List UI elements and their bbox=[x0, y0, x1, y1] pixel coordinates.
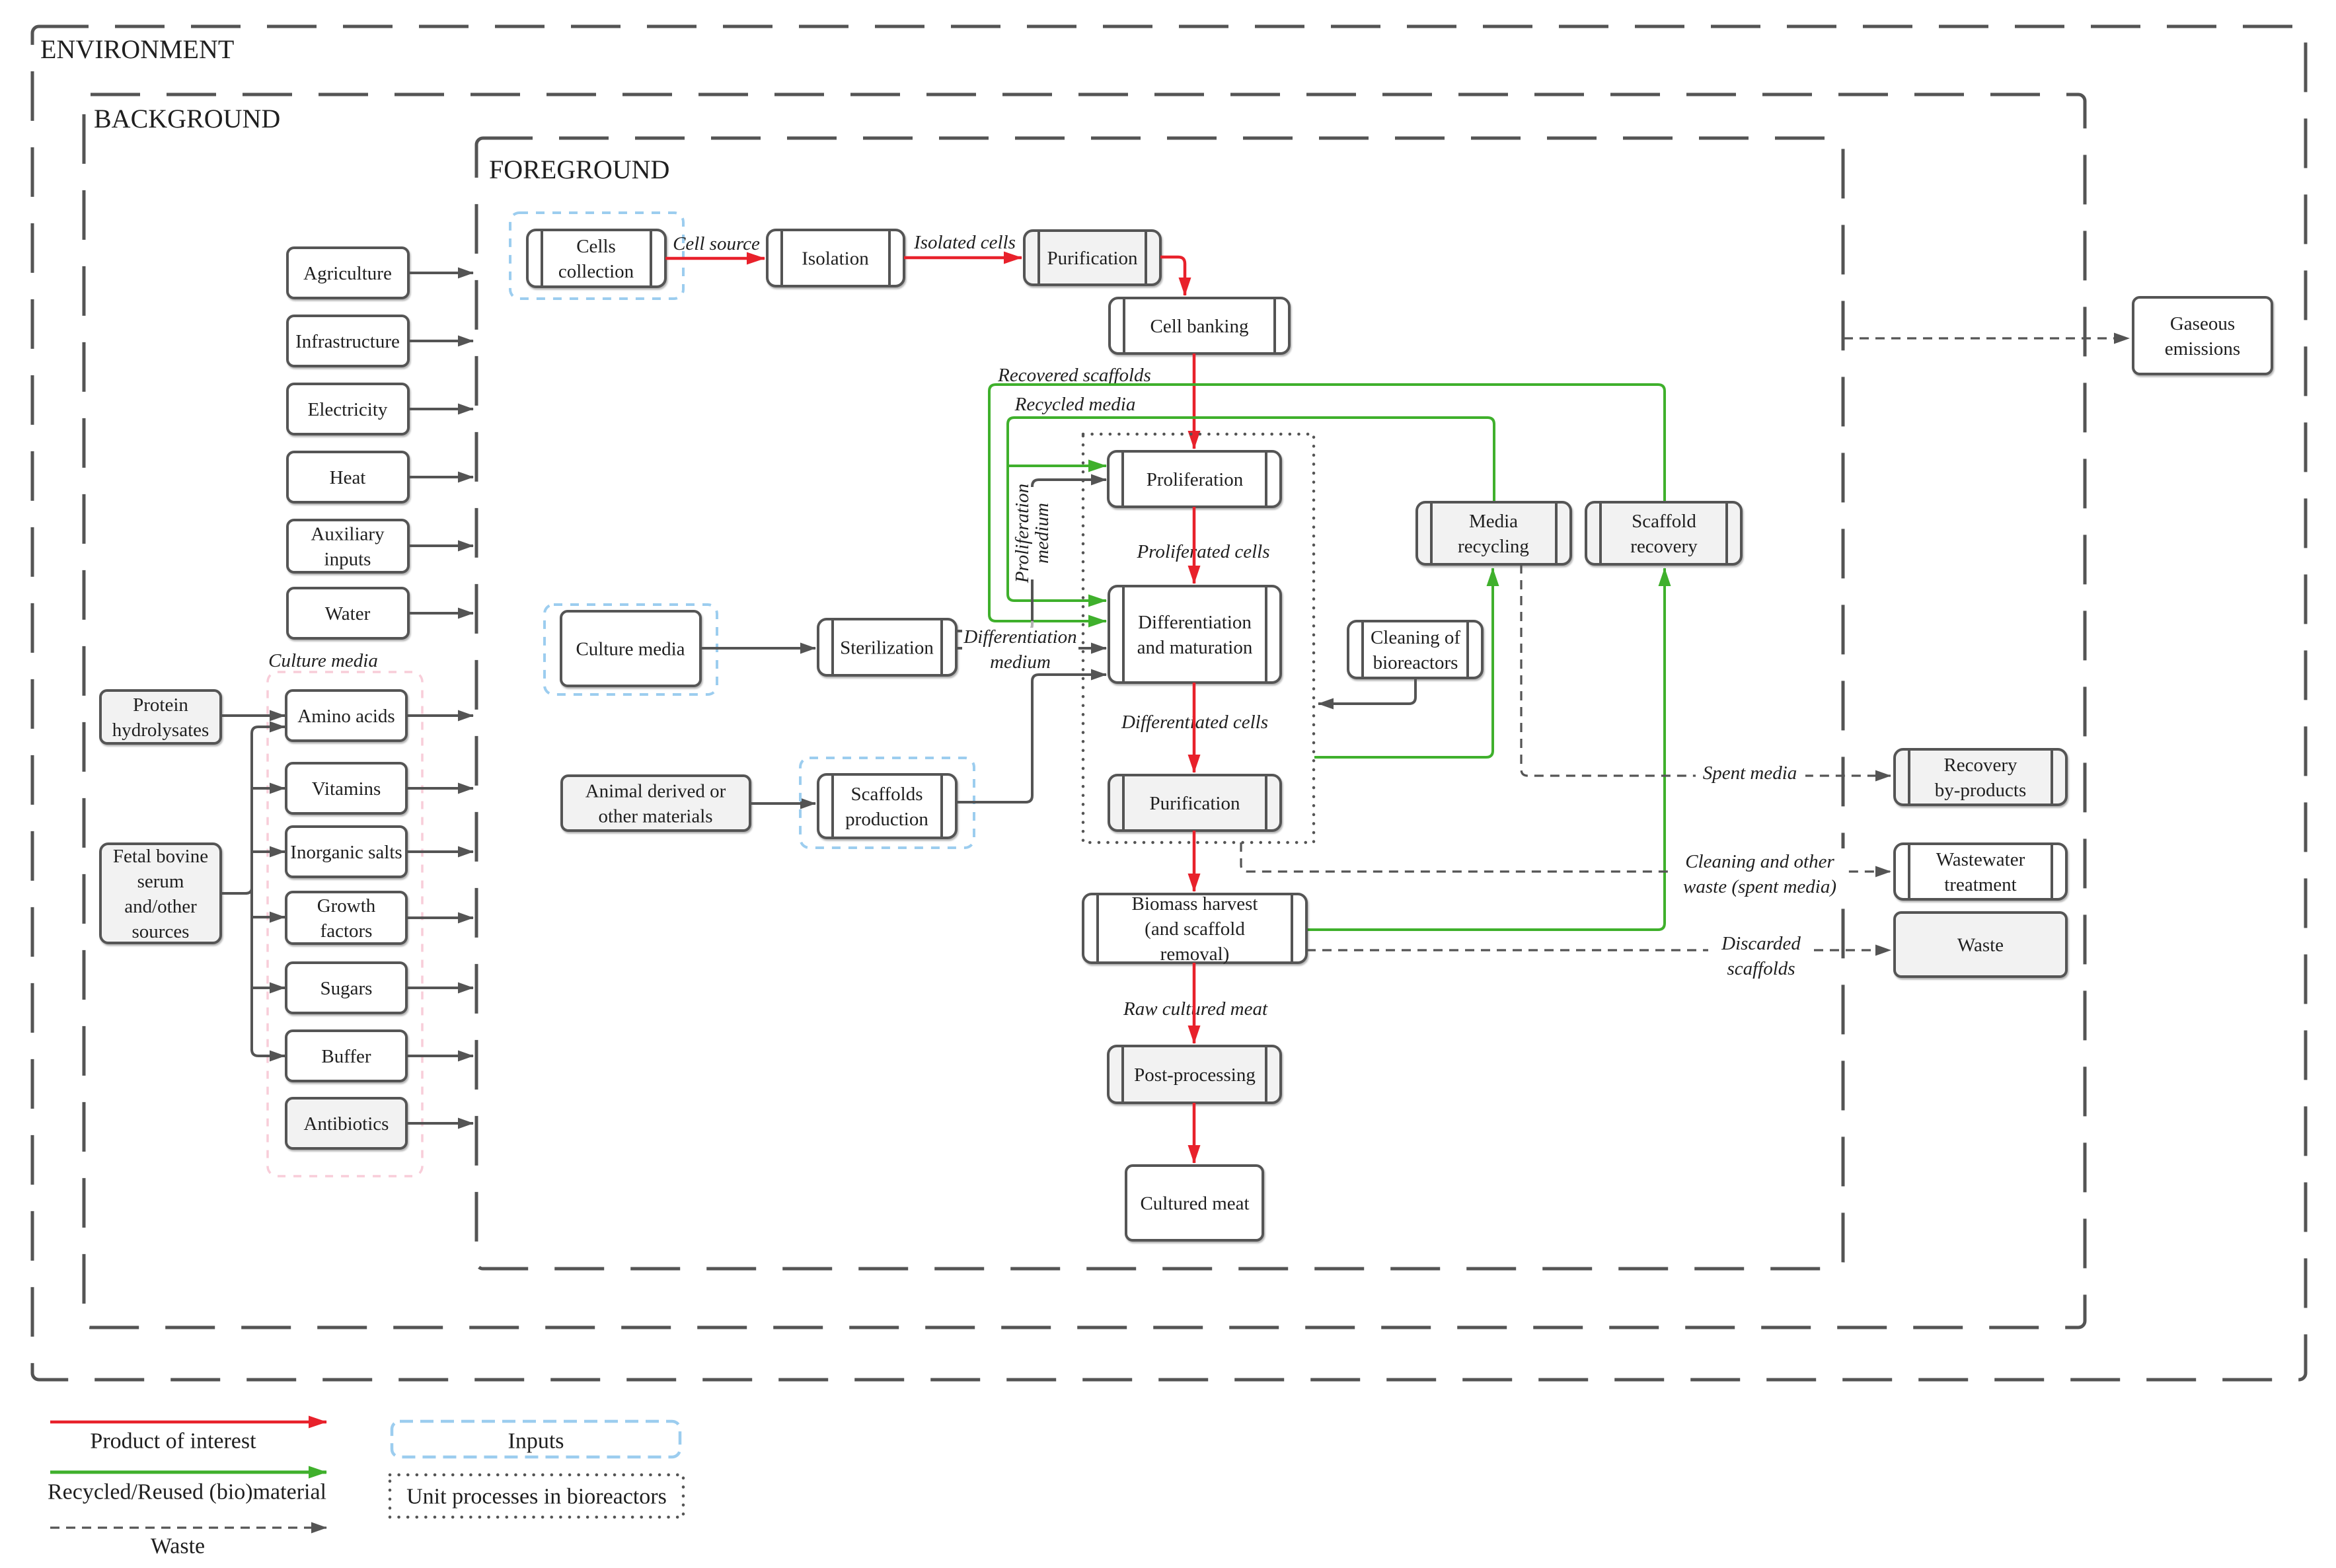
svg-text:FOREGROUND: FOREGROUND bbox=[489, 155, 669, 184]
svg-text:serum: serum bbox=[137, 871, 184, 892]
svg-text:Recycled/Reused (bio)material: Recycled/Reused (bio)material bbox=[48, 1480, 326, 1505]
svg-text:Heat: Heat bbox=[330, 467, 366, 488]
svg-text:Antibiotics: Antibiotics bbox=[304, 1113, 389, 1135]
svg-text:Proliferated cells: Proliferated cells bbox=[1136, 541, 1269, 562]
svg-text:Culture media: Culture media bbox=[268, 650, 378, 671]
svg-text:Purification: Purification bbox=[1150, 793, 1240, 814]
svg-text:Discarded: Discarded bbox=[1721, 933, 1801, 954]
svg-text:Recovered scaffolds: Recovered scaffolds bbox=[997, 365, 1151, 386]
svg-text:Media: Media bbox=[1469, 511, 1518, 532]
svg-text:(and scaffold: (and scaffold bbox=[1145, 918, 1245, 940]
svg-text:Inorganic salts: Inorganic salts bbox=[290, 842, 402, 863]
svg-text:Growth: Growth bbox=[317, 895, 376, 916]
svg-text:Cleaning and other: Cleaning and other bbox=[1685, 851, 1834, 872]
svg-text:Fetal bovine: Fetal bovine bbox=[113, 846, 208, 867]
svg-text:BACKGROUND: BACKGROUND bbox=[94, 104, 280, 133]
svg-text:production: production bbox=[845, 809, 928, 830]
svg-text:waste (spent media): waste (spent media) bbox=[1683, 876, 1836, 897]
svg-text:Cleaning of: Cleaning of bbox=[1371, 627, 1460, 648]
svg-text:Buffer: Buffer bbox=[321, 1046, 371, 1067]
svg-text:scaffolds: scaffolds bbox=[1727, 958, 1795, 979]
svg-text:Purification: Purification bbox=[1047, 248, 1138, 269]
svg-text:Auxiliary: Auxiliary bbox=[311, 524, 385, 545]
svg-text:Amino acids: Amino acids bbox=[297, 706, 395, 727]
svg-text:Recovery: Recovery bbox=[1943, 755, 2017, 776]
svg-text:Isolated cells: Isolated cells bbox=[913, 232, 1016, 253]
svg-text:Protein: Protein bbox=[133, 694, 188, 716]
svg-text:recovery: recovery bbox=[1630, 536, 1698, 557]
svg-text:removal): removal) bbox=[1160, 944, 1230, 965]
svg-text:Agriculture: Agriculture bbox=[303, 263, 392, 284]
svg-text:Recycled media: Recycled media bbox=[1014, 394, 1136, 415]
svg-text:treatment: treatment bbox=[1944, 874, 2017, 895]
svg-text:other materials: other materials bbox=[598, 806, 712, 827]
svg-text:Cells: Cells bbox=[576, 236, 616, 257]
svg-text:factors: factors bbox=[320, 920, 373, 942]
svg-text:Unit processes in bioreactors: Unit processes in bioreactors bbox=[406, 1485, 667, 1509]
svg-text:and maturation: and maturation bbox=[1137, 637, 1253, 658]
svg-text:collection: collection bbox=[558, 261, 634, 282]
svg-text:inputs: inputs bbox=[324, 549, 371, 570]
svg-text:medium: medium bbox=[990, 652, 1051, 673]
svg-text:Proliferation: Proliferation bbox=[1012, 484, 1033, 583]
svg-text:sources: sources bbox=[132, 921, 190, 942]
svg-text:Sugars: Sugars bbox=[320, 978, 373, 999]
svg-text:recycling: recycling bbox=[1458, 536, 1529, 557]
svg-text:Post-processing: Post-processing bbox=[1134, 1064, 1256, 1086]
svg-text:by-products: by-products bbox=[1935, 780, 2027, 801]
svg-text:Gaseous: Gaseous bbox=[2170, 313, 2235, 334]
svg-text:Waste: Waste bbox=[1957, 935, 2004, 956]
svg-text:Product of interest: Product of interest bbox=[90, 1429, 256, 1454]
svg-text:bioreactors: bioreactors bbox=[1373, 652, 1458, 673]
svg-text:Infrastructure: Infrastructure bbox=[295, 331, 400, 352]
svg-text:Proliferation: Proliferation bbox=[1147, 469, 1244, 490]
svg-text:Wastewater: Wastewater bbox=[1936, 849, 2025, 870]
svg-text:Differentiation: Differentiation bbox=[1138, 612, 1252, 633]
svg-text:Isolation: Isolation bbox=[802, 248, 869, 270]
svg-text:Scaffolds: Scaffolds bbox=[850, 784, 923, 805]
svg-text:ENVIRONMENT: ENVIRONMENT bbox=[40, 34, 234, 64]
svg-text:and/other: and/other bbox=[124, 896, 197, 917]
svg-text:medium: medium bbox=[1032, 503, 1053, 564]
svg-text:Biomass harvest: Biomass harvest bbox=[1132, 893, 1258, 915]
svg-text:Differentiation: Differentiation bbox=[963, 626, 1076, 648]
svg-text:emissions: emissions bbox=[2165, 338, 2240, 359]
svg-text:Spent media: Spent media bbox=[1703, 763, 1797, 784]
svg-text:Waste: Waste bbox=[151, 1534, 205, 1559]
svg-text:Vitamins: Vitamins bbox=[312, 778, 381, 800]
svg-text:Culture media: Culture media bbox=[576, 639, 685, 660]
svg-text:Cultured meat: Cultured meat bbox=[1140, 1193, 1249, 1214]
svg-text:Cell source: Cell source bbox=[673, 233, 760, 254]
svg-text:Inputs: Inputs bbox=[508, 1429, 564, 1454]
svg-text:Animal derived or: Animal derived or bbox=[585, 781, 726, 802]
svg-text:Scaffold: Scaffold bbox=[1632, 511, 1696, 532]
svg-text:hydrolysates: hydrolysates bbox=[112, 720, 209, 741]
svg-text:Electricity: Electricity bbox=[308, 399, 388, 420]
svg-text:Sterilization: Sterilization bbox=[840, 638, 934, 659]
svg-text:Cell banking: Cell banking bbox=[1150, 316, 1248, 337]
svg-text:Water: Water bbox=[325, 603, 371, 624]
